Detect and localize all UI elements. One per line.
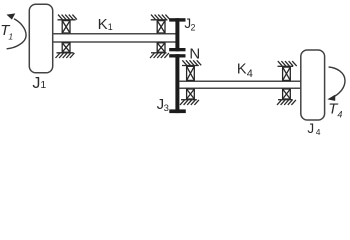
bearing U2 bottom box	[157, 43, 165, 52]
svg-text:J: J	[307, 121, 314, 136]
svg-text:3: 3	[164, 103, 169, 114]
torque arrow T1 head	[7, 13, 16, 19]
torque arrow T4 head	[327, 95, 335, 101]
bearing U2 top ground hatch	[151, 15, 170, 20]
gear J3 shaft bar	[175, 54, 179, 113]
bearing L1 top ground hatch	[182, 60, 201, 65]
bearing L1 bottom ground hatch	[180, 100, 199, 105]
gear J3 bottom cap	[169, 109, 186, 113]
bearing L2 bottom ground hatch	[277, 100, 296, 105]
torque arrow T4 arc	[329, 67, 345, 96]
bearing U1 bottom box	[62, 43, 70, 52]
bearing L2 bottom box	[283, 89, 291, 99]
svg-text:1: 1	[8, 32, 13, 42]
svg-text:1: 1	[108, 22, 113, 32]
bearing U2 bottom ground hatch	[150, 53, 169, 58]
svg-text:4: 4	[247, 68, 253, 80]
upper shaft (two lines)	[53, 33, 176, 35]
lower shaft (two lines)	[179, 80, 300, 82]
disk J4	[301, 50, 325, 120]
disk J1	[29, 4, 52, 73]
svg-text:K: K	[237, 62, 247, 78]
bearing L1 bottom box	[187, 89, 195, 99]
svg-text:J: J	[32, 75, 40, 92]
bearing U1 top ground hatch	[58, 15, 77, 20]
svg-text:N: N	[189, 45, 200, 62]
svg-text:K: K	[98, 16, 108, 33]
torque arrow T1 arc	[7, 19, 27, 49]
bearing U1 bottom ground hatch	[56, 53, 75, 58]
bearing U1 top box	[62, 21, 70, 33]
svg-text:2: 2	[191, 23, 196, 33]
svg-text:1: 1	[40, 79, 46, 91]
bearing L1 top box	[187, 66, 195, 80]
gear J2 bottom cap	[169, 48, 185, 51]
svg-text:4: 4	[316, 127, 321, 137]
gear J2 top cap	[169, 18, 185, 21]
bearing L2 top box	[283, 67, 291, 80]
gear J3 top cap	[169, 54, 185, 57]
gear J2 shaft bar	[175, 18, 179, 51]
svg-text:4: 4	[337, 109, 342, 119]
bearing U2 top box	[157, 21, 165, 33]
bearing L2 top ground hatch	[278, 61, 297, 66]
